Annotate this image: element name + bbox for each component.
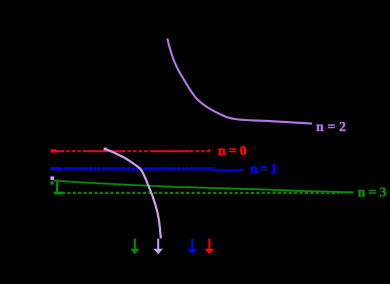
diving level curve start blob [104, 148, 107, 151]
level line n=3 dashed asymptote [62, 192, 339, 194]
svg-text:n = 1: n = 1 [250, 162, 278, 177]
level line n=1 thick start block [51, 167, 61, 170]
curve n=2 hyperbola [167, 39, 312, 124]
svg-text:n = 2: n = 2 [316, 120, 346, 135]
level line n=0 dashed segment 1 [61, 150, 87, 152]
level line n=1 blocky dashed body [60, 167, 214, 170]
level curve n=3 solid [54, 181, 354, 193]
level line n=1 connecting core [60, 168, 214, 170]
level line n=1 solid end [239, 169, 244, 171]
level line n=0 dashed segment 2 [122, 150, 153, 152]
green vertical bar [56, 180, 58, 194]
arrow marker lavender [154, 239, 163, 255]
level line n=0 thick start block [51, 149, 57, 153]
level line n=3 dashed asymptote first long dash [54, 192, 62, 195]
arrow marker blue [188, 239, 197, 255]
level line n=0 dashed segment 3 [190, 150, 211, 152]
level line n=0 solid segment 1 [86, 150, 122, 152]
arrow marker green [130, 239, 139, 255]
level line n=0 solid lead [56, 150, 61, 152]
marker green square [50, 181, 53, 184]
level line n=0 end tick bump [208, 149, 211, 151]
level line n=1 thin dashed tail [214, 169, 239, 171]
level line n=3 solid end [339, 191, 354, 193]
level line n=0 solid segment 2 [153, 150, 190, 152]
svg-text:n = 3: n = 3 [358, 185, 387, 200]
level line n=1 thin base tail [214, 169, 239, 171]
svg-text:n = 0: n = 0 [218, 144, 247, 159]
marker lavender square [50, 176, 54, 180]
arrow marker red [205, 239, 214, 255]
diving level curve (lavender) [104, 149, 161, 239]
